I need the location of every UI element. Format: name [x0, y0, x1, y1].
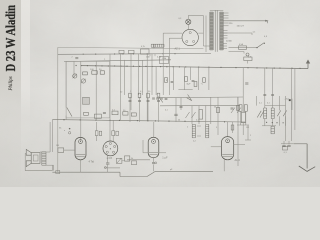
- svg-text:2: 2: [72, 57, 73, 59]
- svg-text:0,1: 0,1: [267, 103, 270, 105]
- svg-text:1W: 1W: [246, 127, 249, 129]
- svg-text:5k: 5k: [131, 158, 133, 160]
- svg-text:1M: 1M: [56, 145, 59, 147]
- svg-text:Philips: Philips: [9, 76, 14, 91]
- svg-text:0,1: 0,1: [196, 120, 199, 122]
- svg-text:1 µF: 1 µF: [162, 156, 168, 160]
- svg-text:110 127: 110 127: [237, 26, 245, 28]
- svg-text:AL 4: AL 4: [235, 158, 241, 162]
- svg-text:8µF: 8µF: [187, 84, 191, 86]
- svg-text:2x300: 2x300: [226, 41, 233, 43]
- svg-text:0,1: 0,1: [259, 103, 262, 105]
- svg-text:10M: 10M: [162, 58, 166, 60]
- svg-text:2: 2: [187, 127, 188, 129]
- svg-text:4,5: 4,5: [253, 32, 256, 34]
- svg-text:4,7k: 4,7k: [141, 46, 145, 48]
- svg-text:50: 50: [178, 120, 180, 122]
- svg-text:4 Tal: 4 Tal: [89, 159, 95, 163]
- svg-text:D 23 W Aladin: D 23 W Aladin: [3, 4, 18, 71]
- svg-text:AZ 1: AZ 1: [175, 48, 181, 51]
- svg-text:2: 2: [250, 135, 251, 137]
- svg-text:50: 50: [214, 107, 216, 109]
- svg-text:0,1: 0,1: [165, 110, 168, 112]
